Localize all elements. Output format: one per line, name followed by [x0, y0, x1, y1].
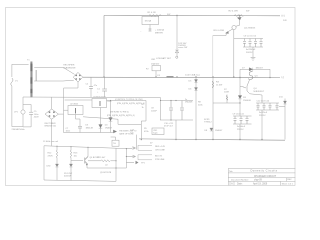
junction R15 at 116 — [115, 160, 116, 161]
svg-text:REV: REV — [287, 179, 292, 181]
junction group bottom mid — [170, 119, 171, 120]
title block cell separator sheet — [280, 181, 282, 185]
D7 loop top wire — [240, 68, 270, 70]
TITLE BLOCK — [228, 168, 295, 185]
svg-text:1k 5W: 1k 5W — [216, 85, 223, 87]
wire opto input top — [65, 99, 92, 101]
D5 D6 column at 196 — [195, 77, 197, 140]
AC INPUT + TRANSFORMER — [11, 64, 29, 126]
wire lower-left bottom rail — [44, 180, 116, 181]
wire C1 column — [104, 77, 106, 97]
resistor R15 zigzag — [101, 160, 116, 162]
cap bank bottom bus — [243, 46, 263, 48]
bridge BR2 diode dot 2 — [53, 111, 55, 113]
BRIDGE RECTIFIER BR2 — [45, 97, 58, 119]
opto U1 box — [92, 99, 107, 108]
wire secondary top to bridge — [34, 67, 74, 74]
svg-text:25VDC: 25VDC — [237, 129, 244, 131]
wire group down to bus — [175, 120, 177, 140]
title block outline — [228, 168, 295, 185]
diode D11 — [283, 101, 286, 104]
zener ZD1 — [69, 164, 72, 167]
transformer T1 core blob top — [30, 64, 32, 72]
connector J1 symbol — [149, 29, 152, 31]
terminal circle below D13 — [176, 56, 178, 58]
transistor Q1 — [238, 16, 242, 26]
bridge BR1 diode dot 3 — [75, 78, 77, 80]
junction lower bus at 240 — [239, 139, 240, 140]
wire R7 stub — [226, 95, 228, 104]
off-page arrow 3 terminal — [136, 161, 139, 164]
bridge BR1 diode dot 4 — [79, 78, 81, 80]
wire cap bank to ground — [252, 47, 254, 57]
capacitor C3 — [243, 39, 246, 48]
off-page arrow 3 — [126, 162, 134, 164]
BRIDGE RECTIFIER BR1 — [73, 72, 83, 82]
MAIN WIRES — [83, 15, 285, 140]
capacitor CB1 — [234, 116, 237, 124]
svg-text:C3 C4 C5 C6: C3 C4 C5 C6 — [244, 35, 257, 37]
junction mid rail at 240 — [239, 77, 240, 78]
title block cell separator rev — [286, 178, 288, 182]
OPTO SECTION — [64, 97, 147, 132]
svg-text:RTN LINE: RTN LINE — [155, 159, 165, 161]
NTC box stub — [111, 137, 116, 140]
resistor R15 wire — [88, 160, 101, 162]
wire R3 column — [212, 77, 214, 140]
junction group top right — [175, 100, 176, 101]
svg-text:14.4V 40A max: 14.4V 40A max — [185, 74, 201, 77]
capacitor C5 plates — [29, 112, 33, 114]
wire base branch — [213, 102, 240, 104]
SCR Q3 curve symbol — [248, 71, 252, 79]
lamp LP1 — [21, 110, 25, 114]
svg-text:Sheet 1 of 1: Sheet 1 of 1 — [282, 183, 294, 186]
svg-text:15A 50V: 15A 50V — [151, 62, 160, 65]
wire group bottom — [160, 119, 193, 121]
title block row line 2 — [228, 177, 295, 179]
zener diode D13 — [175, 50, 178, 53]
border frame — [6, 8, 296, 186]
svg-text:1N5408: 1N5408 — [185, 102, 193, 104]
junction lower bus at 262 — [261, 139, 262, 140]
wire AC bottom — [12, 126, 23, 128]
svg-text:1N4007: 1N4007 — [105, 127, 113, 129]
svg-text:Domestic Circuits: Domestic Circuits — [251, 169, 278, 173]
svg-text:Date:: Date: — [237, 183, 243, 186]
svg-text:(PIN_6)(PIN_6)(PIN_6)(PIN_6): (PIN_6)(PIN_6)(PIN_6)(PIN_6) — [107, 115, 135, 117]
transistor Q5 — [85, 157, 88, 165]
wire lower-left right vertical — [115, 148, 117, 181]
wire U1 output — [107, 100, 147, 102]
svg-text:47uF 4u7: 47uF 4u7 — [164, 126, 174, 128]
capacitor C10 — [180, 101, 184, 121]
wire left vertical from top rail to mid rail — [103, 16, 105, 78]
wire group left vertical — [160, 98, 162, 121]
capacitor CA1 — [257, 103, 260, 110]
junction arrow column mid — [126, 156, 127, 157]
wire F2 to rail — [155, 71, 157, 77]
wire lamp parallel branch — [23, 105, 31, 127]
junction mid rail at 104 — [103, 76, 104, 77]
bridge BR1 diode dot 2 — [79, 75, 81, 77]
diode D6 — [194, 88, 197, 91]
bridge rectifier BR1 diamond — [73, 72, 83, 82]
wire group A down to bus — [261, 110, 263, 140]
group B bottom bus — [233, 123, 252, 125]
capacitor C2 column — [90, 77, 92, 97]
svg-text:LED: LED — [108, 101, 112, 103]
capacitor C6b — [260, 39, 263, 48]
svg-text:25A BRIDGE: 25A BRIDGE — [63, 66, 76, 69]
svg-text:TYN612: TYN612 — [204, 122, 212, 124]
svg-text:R1 0.1R: R1 0.1R — [148, 12, 156, 14]
wire group top — [161, 100, 194, 102]
wire trigger line — [111, 132, 114, 134]
wire emitter column faint — [212, 36, 214, 78]
transformer T1 secondary winding — [36, 70, 37, 81]
svg-text:U2 4N25: U2 4N25 — [70, 104, 79, 106]
svg-text:(-): (-) — [282, 76, 285, 79]
transformer T1 core blob mid — [30, 77, 32, 83]
bridge BR2 diode dot 4 — [53, 115, 55, 117]
junction mid rail at 213 — [212, 76, 213, 77]
svg-text:C9 C10 C11: C9 C10 C11 — [233, 113, 245, 115]
bridge BR1 diode dot 1 — [75, 75, 77, 77]
svg-text:1N4148: 1N4148 — [86, 127, 94, 129]
junction lower bus at 213 — [212, 139, 213, 140]
junction mid rail at F2 — [155, 76, 156, 77]
resistor R3 column at 213 — [212, 77, 214, 140]
junction base branch at 240 — [239, 102, 240, 103]
wire opto bottom bus — [64, 132, 111, 134]
svg-text:(RETURN TO PIN 6): (RETURN TO PIN 6) — [110, 111, 129, 113]
svg-text:1N5408: 1N5408 — [243, 100, 251, 102]
junction mid rail at 196 — [195, 76, 196, 77]
svg-text:50VDC: 50VDC — [246, 52, 253, 54]
resistor R2 inline on top rail — [235, 15, 244, 17]
wire Q4 base left — [240, 87, 244, 96]
svg-text:April 19, 2009: April 19, 2009 — [253, 183, 268, 186]
wire D4 column — [110, 101, 112, 133]
diode D4 dark — [109, 118, 113, 122]
wire group A link to D11 column — [279, 106, 285, 108]
capacitor C1 plates — [102, 89, 107, 91]
junction emitter row at 116 — [115, 167, 116, 168]
opto U1 inner bar — [99, 101, 101, 106]
group B top bus — [233, 115, 252, 117]
junction arrow column top — [126, 148, 127, 149]
svg-text:MJE3055T: MJE3055T — [254, 91, 265, 93]
wire Q2 collector column — [233, 30, 235, 78]
capacitor C2 plates — [89, 87, 93, 89]
opto U2 inner bar — [75, 108, 77, 114]
svg-text:ZD1 6V2: ZD1 6V2 — [64, 173, 73, 175]
capacitor CA2 — [263, 103, 266, 110]
title block cell separator A left — [229, 181, 231, 185]
svg-text:1N4007: 1N4007 — [256, 68, 264, 70]
svg-text:LOW BATT SET: LOW BATT SET — [156, 57, 172, 60]
svg-text:SCR1: SCR1 — [204, 119, 210, 121]
wire arrow column — [125, 149, 127, 168]
capacitor CB2 — [240, 116, 243, 124]
LED D1 wires — [56, 160, 58, 181]
junction top rail at Q1 — [239, 15, 240, 16]
wire Q5 emitter down — [86, 165, 88, 169]
svg-text:100nF: 100nF — [151, 110, 158, 112]
trigger arrowhead dark — [113, 130, 117, 133]
ground below cap bank — [251, 58, 256, 61]
opto U2 box — [68, 106, 83, 115]
junction top rail at zener — [176, 15, 177, 16]
fuse F2 box — [152, 66, 161, 78]
svg-text:R2 0.15R: R2 0.15R — [229, 10, 239, 12]
wire lower negative bus — [139, 139, 285, 140]
resistor R3 zigzag — [212, 81, 214, 88]
title block cell separator A right — [233, 181, 235, 185]
wire primary top — [12, 63, 29, 65]
svg-text:50Hz: 50Hz — [20, 129, 25, 131]
resistor R7 marks — [226, 96, 228, 101]
svg-text:R10 0.15R: R10 0.15R — [214, 30, 225, 32]
cap bank top bus — [234, 38, 263, 40]
svg-text:12.6Vdc aux rail: 12.6Vdc aux rail — [43, 140, 58, 143]
svg-text:400V: 400V — [34, 117, 39, 119]
CAP GROUP A right — [250, 94, 285, 140]
off-page connector bracket 1 — [138, 145, 152, 150]
wire bridge negative down — [64, 82, 78, 97]
junction lower-left at 57 — [56, 146, 57, 147]
capacitor C8 — [169, 101, 173, 121]
capacitor CA3 — [269, 103, 272, 110]
group A top bus — [256, 102, 279, 104]
wire U2 output path — [83, 117, 141, 125]
CAP GROUP B — [233, 99, 252, 140]
wire bridge2 bottom down — [51, 119, 53, 146]
svg-text:Q5 BC557B: Q5 BC557B — [100, 172, 112, 174]
wire D3 column — [100, 108, 102, 133]
wire C7 column — [79, 119, 81, 133]
wire D9 to group B — [239, 99, 241, 116]
junction lower bus at 196 — [195, 139, 196, 140]
D7 loop left vertical — [239, 69, 241, 86]
diode D5 — [194, 80, 197, 83]
wire zener drop — [176, 16, 178, 50]
wire lamp column — [22, 97, 24, 127]
svg-text:GATE OF SCR1: GATE OF SCR1 — [119, 133, 134, 136]
svg-text:M1 6A: M1 6A — [145, 19, 152, 22]
LED D1 — [55, 164, 58, 167]
svg-text:Document Number: Document Number — [231, 178, 249, 181]
svg-text:1N4007: 1N4007 — [215, 130, 223, 132]
NTC box — [112, 140, 119, 146]
wire lower bus 0V — [23, 96, 161, 99]
svg-text:25VDC: 25VDC — [259, 115, 266, 117]
title block row line 1 — [228, 172, 295, 174]
diode D8 on column — [210, 128, 213, 131]
wire M1 down — [149, 25, 151, 32]
resistor R12 — [56, 146, 58, 160]
junction group top left — [160, 100, 161, 101]
wire Q4 emitter to group A — [250, 94, 262, 103]
junction group top mid — [170, 100, 171, 101]
svg-text:BRIDGE 1A: BRIDGE 1A — [45, 125, 57, 128]
wire AC live vertical — [11, 64, 13, 126]
transistor Q1 emitter mark — [237, 17, 241, 20]
junction mid rail at 270 — [269, 77, 270, 78]
wire bridge2 right to opto column — [58, 113, 63, 115]
junction R5 at bus — [141, 139, 142, 140]
capacitor C4 — [249, 39, 252, 48]
off-page arrow 1 — [126, 147, 135, 150]
SNUBBER GROUP C8 C10 C11 — [160, 98, 193, 140]
junction Q5 collector at rail — [87, 147, 88, 148]
junction lower-left at 71 — [70, 146, 71, 147]
junction mid rail at 233.8 — [233, 76, 234, 77]
wire emitter row — [87, 167, 126, 169]
svg-text:C10 +C11: C10 +C11 — [164, 123, 174, 125]
junction lower bus at 176 — [175, 139, 176, 140]
wire D5 D6 column — [195, 77, 197, 140]
wire bridge2 top stub — [51, 97, 53, 109]
svg-text:3x100uF: 3x100uF — [237, 126, 246, 128]
transformer T1 core blob bottom — [30, 89, 32, 93]
svg-text:+ 100mA: + 100mA — [155, 29, 164, 32]
transformer T1 core bar — [30, 62, 32, 98]
svg-text:RECTIFIER: RECTIFIER — [45, 123, 56, 125]
wire trigger to bracket column — [135, 135, 137, 150]
wire opto U2 left stub — [64, 109, 69, 111]
svg-text:8-pin: 8-pin — [153, 133, 157, 135]
wire opto left column — [63, 97, 65, 132]
svg-text:U1 MOC3021: U1 MOC3021 — [93, 96, 107, 98]
svg-text:zener 5W: zener 5W — [178, 46, 187, 49]
svg-text:chgr-09: chgr-09 — [254, 179, 263, 182]
wire lower-left top rail — [44, 146, 126, 149]
svg-text:TRIGGER LINE TO: TRIGGER LINE TO — [119, 131, 137, 133]
diode D3 dark — [99, 125, 103, 129]
svg-text:LED: LED — [47, 166, 52, 168]
bridge BR2 diode dot 3 — [49, 115, 51, 117]
wire lower-left left vertical — [43, 146, 45, 180]
bridge rectifier BR2 diamond — [45, 109, 58, 119]
capacitor CB3 — [246, 116, 249, 124]
svg-text:470R: 470R — [48, 155, 53, 157]
junction D4 top — [110, 100, 111, 101]
svg-text:CHARGER CIRCUIT: CHARGER CIRCUIT — [254, 175, 277, 178]
wire group B down to bus — [239, 124, 241, 140]
transistor Q2 — [229, 25, 240, 31]
connector box CN1 — [152, 128, 164, 135]
wire zener to terminal — [176, 53, 178, 56]
zener ZD1 wires — [70, 160, 72, 181]
resistor R13 — [70, 147, 72, 160]
capacitor C5b — [254, 39, 257, 48]
svg-text:CHG LINE: CHG LINE — [155, 150, 165, 152]
svg-text:4x2200uF: 4x2200uF — [246, 49, 256, 51]
svg-text:(+): (+) — [282, 15, 285, 18]
resistor R1 inline on top rail — [149, 15, 161, 17]
transformer T1 primary winding — [31, 64, 32, 97]
transistor Q5 emitter arrowhead — [86, 164, 88, 166]
title block row line 3 — [228, 180, 295, 182]
svg-text:set: set — [105, 164, 108, 167]
capacitor C1 under mid rail — [102, 77, 107, 97]
capacitor CA4 — [276, 103, 279, 110]
off-page connector bracket 2 — [138, 155, 152, 160]
Q3 sub-branch horizontal — [213, 95, 240, 104]
AC source V1 sine symbol — [11, 78, 13, 86]
wire box2 stub to C7 — [76, 115, 81, 120]
diode D9 — [238, 96, 242, 99]
LOWER LEFT REGULATOR SECTION — [44, 146, 126, 182]
svg-text:RED +14V: RED +14V — [155, 146, 165, 148]
transistor Q2 emitter arrowhead — [225, 31, 229, 34]
transistor Q4 — [243, 80, 250, 94]
svg-text:3x470uF: 3x470uF — [259, 112, 268, 114]
svg-text:BLK 0V: BLK 0V — [155, 155, 163, 157]
transistor Q5 collector wire — [87, 147, 89, 156]
meter M1 box under rail — [142, 17, 159, 32]
wire emitter horizontal — [213, 33, 227, 35]
svg-text:(CONTROL TO PIN 4 OF CN1): (CONTROL TO PIN 4 OF CN1) — [115, 99, 143, 101]
svg-text:100R: 100R — [224, 92, 229, 94]
wire U1 output drop — [141, 101, 146, 122]
svg-text:24V: 24V — [283, 20, 287, 22]
D7 loop right vertical — [269, 69, 271, 77]
wire R5 column — [140, 121, 142, 140]
svg-text:400mW: 400mW — [64, 176, 71, 178]
OUTPUT CAP BANK top right — [234, 39, 263, 61]
wire right vertical — [284, 99, 286, 140]
off-page arrow 2 — [126, 155, 135, 158]
capacitor C7 plates — [78, 126, 82, 128]
mid rail thick segment — [167, 76, 174, 78]
svg-text:METER: METER — [155, 33, 163, 35]
wire top positive rail — [104, 14, 280, 16]
diode D7 dark — [249, 68, 253, 71]
svg-text:Q2 2N3055: Q2 2N3055 — [244, 27, 256, 29]
wire secondary bottom to bridge — [34, 79, 74, 82]
svg-text:C12 C13 C14: C12 C13 C14 — [257, 100, 270, 102]
right vertical with diode — [284, 99, 286, 140]
svg-text:R15 4k7: R15 4k7 — [98, 157, 107, 159]
wire mid rail — [83, 76, 280, 78]
wire Q5 base left — [71, 160, 83, 162]
group A bottom bus — [256, 109, 279, 111]
bridge BR2 diode dot 1 — [49, 111, 51, 113]
junction mid rail at 177 — [176, 76, 177, 77]
